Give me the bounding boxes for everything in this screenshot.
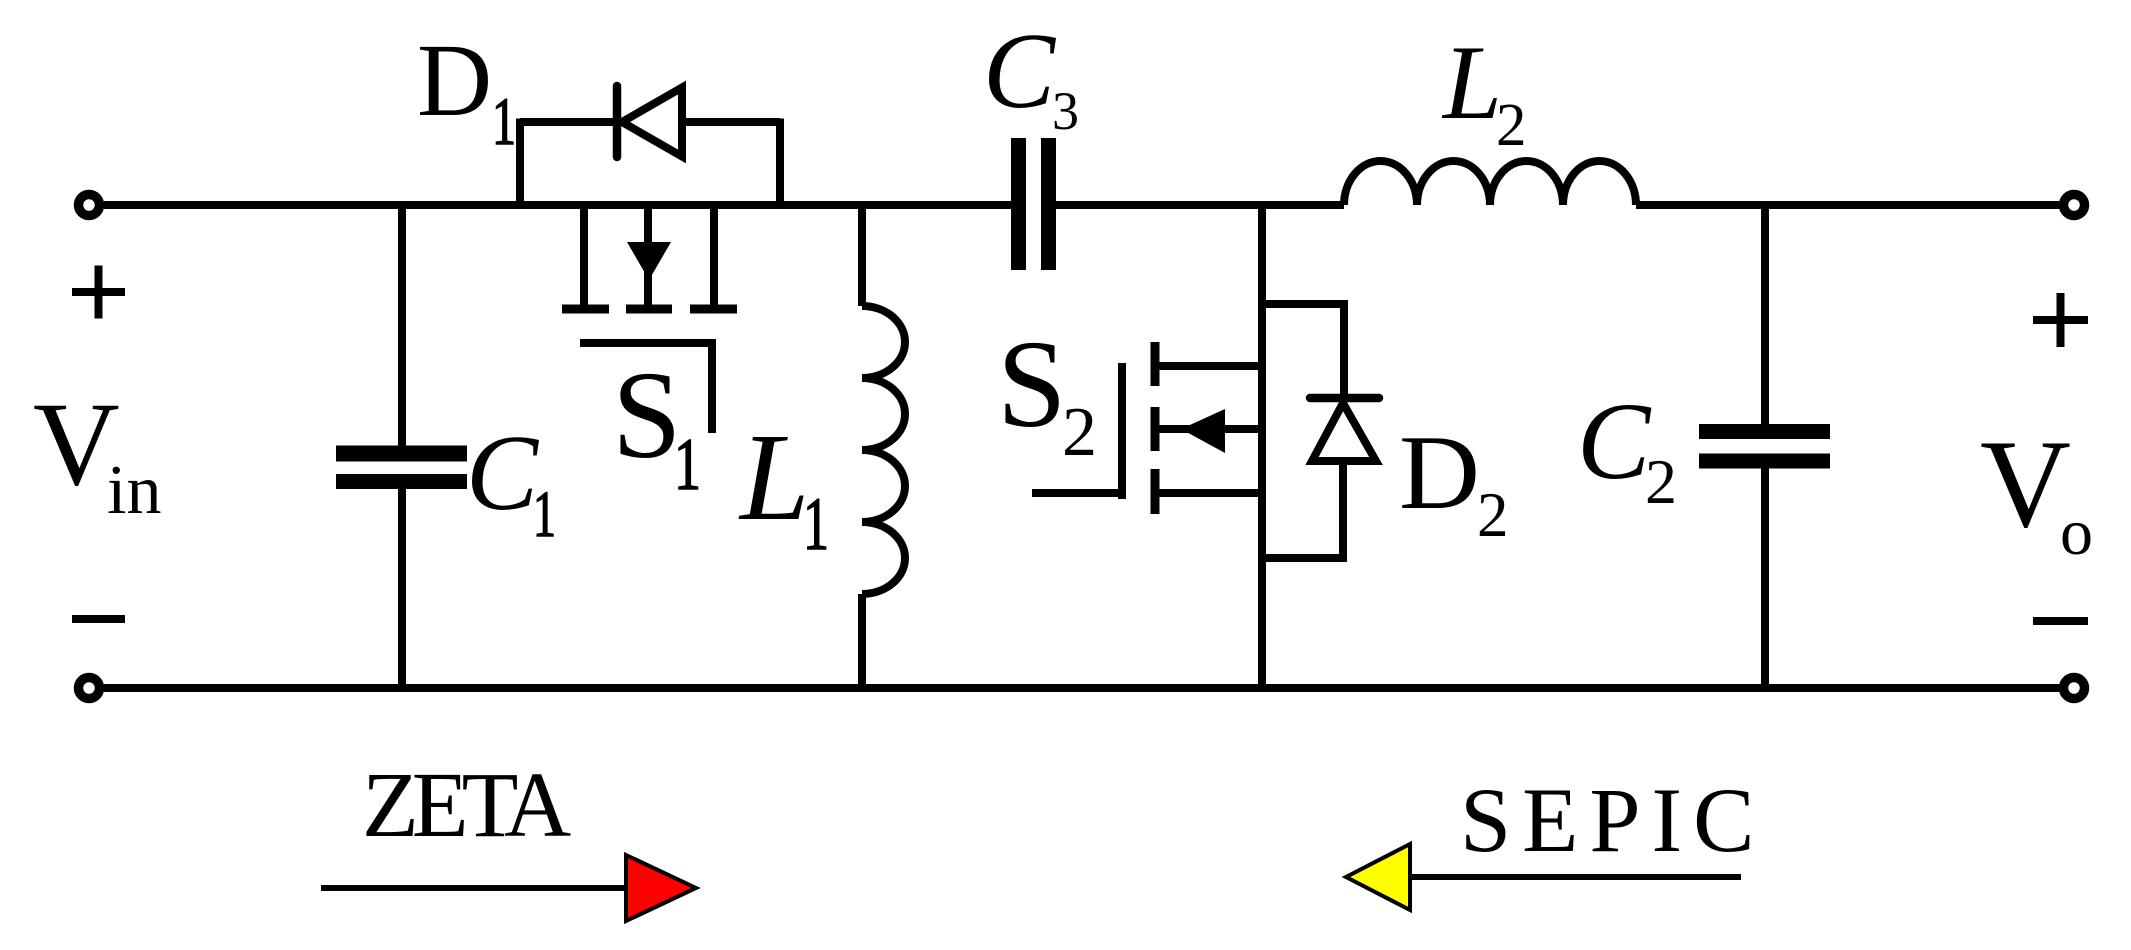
svg-text:C: C [1577, 380, 1652, 502]
transistor S1 channel bar middle [626, 305, 672, 314]
diode D2 box top edge [1262, 300, 1344, 308]
inductor L2 coil [1344, 161, 1636, 205]
svg-text:V: V [1980, 415, 2071, 554]
wire top rail middle segment [1056, 201, 1344, 209]
wire bottom rail [104, 684, 2059, 692]
svg-text:2: 2 [1062, 394, 1097, 471]
svg-text:ZETA: ZETA [362, 754, 571, 857]
transistor S1 channel bar right [690, 305, 737, 314]
diode D1 box left edge [516, 119, 524, 206]
diode D1 box right edge [776, 119, 784, 206]
SEPIC arrow shaft [1408, 874, 1741, 880]
svg-text:1: 1 [674, 424, 701, 506]
transistor S2 gate lead [1032, 489, 1122, 497]
terminal output bottom [2064, 678, 2085, 699]
inductor L1 coil [862, 306, 905, 594]
svg-text:1: 1 [492, 83, 516, 159]
svg-text:L: L [738, 409, 810, 547]
inductor L1 top lead [858, 205, 866, 306]
transistor S2 channel dash bottom [1151, 469, 1160, 514]
ZETA arrow shaft [321, 885, 630, 891]
svg-text:3: 3 [1052, 81, 1079, 141]
diode D2 cathode bar [1310, 394, 1379, 403]
transistor S1 gate plate [580, 339, 716, 347]
capacitor C2 bottom lead [1761, 468, 1769, 688]
transistor S2 body arrow [1181, 409, 1225, 453]
capacitor C1 plates [336, 446, 467, 490]
svg-text:D: D [417, 23, 492, 138]
transistor S1 gate lead [708, 343, 716, 433]
diode D2 box bottom edge [1262, 554, 1347, 562]
wire top rail right segment [1636, 201, 2059, 209]
terminal input top [79, 195, 100, 216]
transistor S2 channel dash middle [1151, 407, 1160, 451]
svg-text:2: 2 [1496, 92, 1527, 159]
transistor S1 body stub [644, 205, 652, 309]
svg-text:C: C [466, 414, 540, 533]
plus sign input [72, 288, 125, 296]
diode D1 cathode wire [520, 118, 613, 126]
transistor S1 source stub [710, 205, 718, 305]
svg-text:D: D [1399, 414, 1480, 531]
transistor S1 channel bar left [562, 305, 609, 314]
capacitor C1 bottom lead [398, 489, 406, 688]
transistor S1 drain stub [580, 205, 588, 305]
capacitor C3 plates [1011, 138, 1056, 270]
minus sign output [2033, 617, 2088, 625]
ZETA arrowhead [626, 855, 696, 921]
svg-text:2: 2 [1645, 446, 1677, 517]
capacitor C1 top lead [398, 205, 406, 446]
SEPIC arrowhead [1346, 844, 1410, 910]
terminal output top [2064, 195, 2085, 216]
svg-text:1: 1 [803, 483, 829, 566]
transistor S2 source bar [1155, 489, 1262, 497]
plus sign output [2033, 316, 2088, 324]
minus sign input [72, 615, 125, 623]
svg-text:o: o [2060, 496, 2093, 569]
capacitor C2 plates [1699, 424, 1830, 469]
capacitor C2 top lead [1761, 205, 1769, 425]
diode D1 cathode bar [613, 86, 622, 157]
svg-text:1: 1 [533, 478, 556, 551]
diode D2 anode lead [1339, 462, 1347, 558]
diode D2 cathode lead [1340, 300, 1348, 398]
transistor S2 gate plate [1118, 363, 1126, 499]
diode D1 anode wire [682, 118, 780, 126]
wire top rail left segment [104, 201, 1011, 209]
svg-text:L: L [1441, 24, 1502, 141]
transistor S2 channel dash top [1151, 342, 1160, 386]
transistor S1 body diode arrow [627, 242, 671, 280]
transistor S2 drain-source vertical [1258, 205, 1266, 688]
transistor S2 drain bar [1155, 362, 1262, 370]
diode D2 triangle [1312, 403, 1376, 461]
svg-text:S: S [997, 316, 1067, 454]
inductor L1 bottom lead [858, 594, 866, 688]
terminal input bottom [79, 678, 100, 699]
svg-text:S: S [612, 347, 682, 485]
diode D1 triangle [622, 88, 682, 157]
svg-text:2: 2 [1477, 480, 1509, 550]
transistor S2 body bar [1155, 425, 1262, 433]
svg-text:C: C [983, 12, 1057, 131]
svg-text:SEPIC: SEPIC [1460, 769, 1766, 871]
svg-text:in: in [107, 452, 161, 529]
